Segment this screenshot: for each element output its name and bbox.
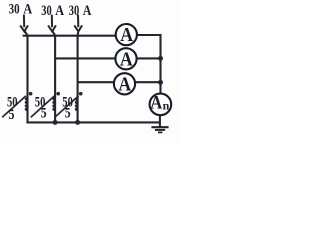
arrow 30A phase 2 (48, 15, 56, 36)
svg-text:30: 30 (41, 3, 52, 19)
wire top bus (phase 1 to ammeter A1) (23, 35, 116, 37)
svg-text:A: A (120, 48, 133, 70)
wire right bus (159, 34, 161, 94)
svg-text:5: 5 (9, 107, 15, 123)
ammeter An (neutral) (150, 92, 172, 115)
svg-text:5: 5 (41, 106, 47, 122)
wire ground stem (159, 115, 161, 127)
CT T2: polarity dot (56, 92, 60, 96)
CT T1: secondary coil (25, 97, 27, 111)
ammeter A1 (116, 24, 137, 46)
wire bottom return bus (26, 121, 160, 123)
CT T3: secondary coil (75, 97, 77, 111)
CT T1: ratio slash (2, 96, 26, 117)
svg-text:A: A (150, 92, 162, 113)
CT T2: secondary coil (52, 97, 54, 111)
junction node bottom bus / L2 (53, 120, 58, 125)
wire row2 (L2 to ammeter A2) (55, 57, 115, 59)
wire A2 to right bus (137, 57, 161, 59)
CT T3: polarity dot (79, 92, 83, 96)
svg-text:30: 30 (69, 3, 80, 19)
CT T3: ratio slash (55, 96, 79, 117)
svg-text:5: 5 (65, 106, 71, 122)
wire phase line L2 (54, 36, 56, 124)
svg-text:A: A (83, 3, 92, 19)
svg-text:30: 30 (9, 1, 20, 17)
wire A1 to right bus (137, 34, 162, 36)
svg-text:A: A (23, 1, 32, 17)
junction node bus/A3 (158, 80, 163, 85)
ammeter A2 (115, 48, 136, 70)
ground (151, 127, 168, 132)
arrow 30A phase 1 (20, 15, 28, 36)
wire phase line L1 (26, 35, 28, 124)
CT T1: polarity dot (29, 92, 33, 96)
arrow 30A phase 3 (74, 15, 82, 36)
wire A3 to right bus (135, 81, 160, 83)
svg-text:n: n (163, 99, 170, 113)
wire phase line L3 (77, 36, 79, 124)
wire row3 (L3 to ammeter A3) (78, 81, 114, 83)
svg-text:A: A (118, 73, 131, 95)
CT T2: ratio slash (31, 96, 55, 117)
junction node bus/A2 (158, 56, 163, 61)
junction node bottom bus / L3 (75, 120, 80, 125)
ammeter A3 (114, 73, 135, 95)
svg-text:A: A (55, 3, 64, 19)
svg-text:A: A (120, 24, 133, 46)
